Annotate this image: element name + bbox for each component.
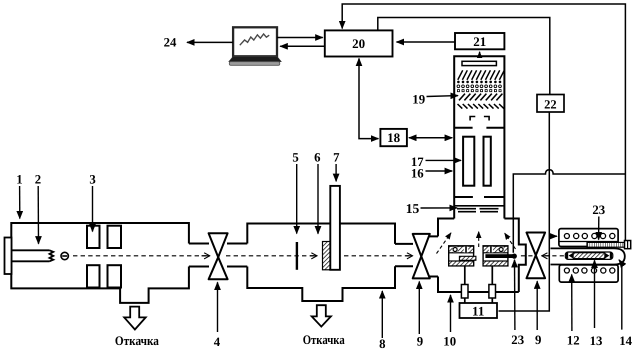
svg-text:18: 18 [387,130,401,145]
box 20 [325,30,393,56]
svg-text:8: 8 [379,337,385,351]
svg-text:9: 9 [535,333,541,347]
ion optics left assembly 23 [449,246,476,266]
dot row (open squares) [457,90,501,92]
svg-text:20: 20 [352,36,365,51]
bracket marks [470,117,489,121]
box 18 [380,129,407,146]
wire right with hop (to extraction rod) [513,170,625,253]
svg-text:2: 2 [35,172,41,186]
extraction rod [485,254,516,259]
valve 9b [527,233,546,279]
valve 4 [209,233,228,279]
furnace upper block 12 [559,229,618,247]
backplate flange [5,238,12,275]
slashes row D [459,94,502,101]
wire column to box21 [479,52,481,57]
wire box20 to laptop [280,45,325,47]
chamber 1 (ion source chamber outline) [11,223,189,303]
sample inlet tube 2 [11,250,53,261]
wire box21 to box20 [397,41,456,43]
aperture 5 [296,242,298,270]
svg-text:11: 11 [472,304,484,319]
svg-text:6: 6 [314,151,321,165]
electron symbol (circle with minus) [61,252,68,259]
svg-text:5: 5 [292,151,298,165]
box 22 [537,95,564,113]
svg-text:21: 21 [473,34,486,49]
svg-text:23: 23 [592,203,605,217]
grids 15 (dashed lines) [454,206,504,212]
laptop 24 [229,27,282,65]
ion path dashed arrow middle [478,232,480,247]
deflection plate 17 [463,137,474,186]
svg-text:1: 1 [16,172,22,186]
wall below plates with gap [454,196,504,198]
svg-text:23: 23 [511,333,524,347]
wire branch to furnace [549,235,557,237]
ion path dashed arrow right [505,233,516,249]
furnace lower block 12 [559,265,618,282]
furnace tube [551,248,625,264]
box 21 [455,33,504,49]
detector box bottom wall with gap [454,127,504,129]
arrow to label 24 [187,41,233,43]
box 11 [460,303,498,318]
wire top second (box20 top to box22) [378,18,550,95]
ion path dashed arrow left [437,233,452,254]
deflection plate 16 [484,137,491,186]
wire box20 bottom to box18 [359,59,378,139]
MCP slashes row A [458,70,505,80]
svg-text:24: 24 [164,36,177,50]
pump arrow (left) [124,307,146,330]
wire laptop to box20 [277,37,323,39]
svg-text:19: 19 [412,92,425,106]
TOF column walls [454,56,504,218]
dot row (open circles) [457,85,501,88]
backslash row E [458,104,504,109]
beam arrowheads [202,255,210,257]
svg-text:15: 15 [406,201,420,216]
chamber 3 (detection chamber outline) [438,219,526,293]
svg-text:22: 22 [544,98,557,112]
target 6 (hatched) [323,242,331,270]
passage walls chamber2-valve9a [395,244,413,266]
wire box22 to box11 [499,112,550,311]
passage walls valve9a-chamber3 [430,236,439,276]
passage walls valve4-chamber2 [227,244,247,267]
beam dashed (right, pointing left) [518,255,564,257]
svg-text:Откачка: Откачка [115,333,159,348]
svg-text:16: 16 [411,167,424,181]
feedthrough insulators [461,285,468,299]
detector plate (top bar) [462,61,496,65]
svg-text:7: 7 [333,151,340,165]
main beam dashed line [73,255,410,257]
screw rod 23 [587,241,631,249]
chamber 2 (middle chamber outline) [247,224,395,302]
svg-text:12: 12 [567,334,580,348]
svg-text:14: 14 [619,334,632,348]
wire box18 to column (double arrow) [409,137,452,139]
svg-text:4: 4 [214,335,221,349]
feedthrough stems [465,266,493,303]
sample holder 13 [565,252,613,259]
ion optics right assembly 23 [483,246,508,266]
passage walls chamber1-valve4 [189,244,209,267]
dot row (filled) 19 [457,81,501,84]
probe tube 7 [330,186,340,270]
svg-text:9: 9 [417,335,423,349]
wire outer loop (box20 top, right side, to screw) [342,4,625,240]
svg-text:3: 3 [89,172,95,186]
lens plates 3 [87,226,121,288]
svg-text:13: 13 [590,334,603,348]
pump arrow (middle) [312,305,331,326]
valve 9a [413,234,430,279]
svg-text:Откачка: Откачка [303,332,345,347]
svg-text:10: 10 [443,335,456,349]
